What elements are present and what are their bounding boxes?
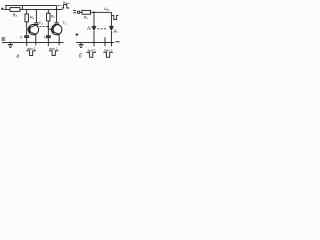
svg-text:вых.1: вых.1	[88, 48, 96, 52]
wire emitter T1	[35, 34, 37, 45]
capacitor C2 (coupling)	[54, 22, 58, 24]
waveform output pulse	[62, 4, 69, 8]
wire collector T2	[56, 6, 58, 23]
wire bottom rail fig b	[76, 42, 114, 44]
svg-text:Д1: Д1	[87, 26, 92, 31]
svg-text:вых.2: вых.2	[104, 48, 112, 52]
waveform input pulse fig b	[112, 15, 118, 19]
waveform pulse input 2	[49, 51, 59, 56]
terminal input fig b	[73, 10, 76, 12]
capacitor C (trigger, left)	[24, 35, 29, 37]
wire	[80, 11, 82, 13]
resistor Rk1 (vertical)	[26, 10, 28, 14]
terminal minus bottom-left	[2, 37, 6, 39]
svg-text:C1: C1	[39, 21, 44, 26]
wire tick x6	[5, 6, 7, 10]
wire emitter T2	[58, 34, 60, 45]
svg-text:Rк: Rк	[30, 15, 35, 20]
wire dashed between diodes	[97, 28, 107, 30]
capacitor C1 (coupling)	[34, 22, 38, 24]
waveform output 2 fig b	[103, 52, 113, 57]
svg-text:Rо: Rо	[84, 16, 89, 21]
svg-text:Uвх: Uвх	[104, 7, 110, 12]
svg-text:Uвых: Uвых	[63, 0, 71, 5]
terminal dot top-left	[1, 8, 3, 10]
wire top rail fig b	[91, 11, 112, 13]
capacitor C (trigger, right)	[46, 35, 51, 37]
resistor Rogr	[82, 10, 91, 14]
transistor T2	[52, 24, 62, 34]
diode Dn	[110, 12, 112, 26]
wire dash right end	[115, 41, 119, 43]
svg-text:C: C	[44, 35, 47, 40]
wire dashed to output	[58, 5, 62, 7]
wire upper rail H1	[5, 5, 56, 7]
waveform output 1 fig b	[86, 52, 96, 57]
wire tick x22.5	[22, 6, 24, 10]
wire collector T1	[35, 10, 37, 23]
resistor R (series, horizontal)	[10, 8, 20, 12]
node junction dot	[93, 11, 95, 13]
wire middle tail	[104, 37, 106, 46]
terminal plus fig b	[76, 34, 79, 36]
ground fig a	[9, 43, 11, 45]
node junction dot	[48, 26, 50, 28]
svg-text:б: б	[79, 53, 82, 59]
wire lower rail H2	[4, 9, 63, 11]
diode D1	[93, 12, 95, 26]
wire bottom rail fig a	[2, 42, 64, 44]
svg-text:C: C	[20, 35, 23, 40]
wire dashed coupling	[39, 26, 47, 28]
svg-text:Rб: Rб	[13, 13, 18, 19]
waveform pulse input 1	[26, 51, 36, 56]
svg-text:а: а	[16, 53, 19, 59]
transistor T1	[28, 24, 38, 34]
svg-text:T2: T2	[63, 21, 67, 26]
svg-text:Rк: Rк	[51, 15, 56, 20]
resistor Rk2 (vertical)	[47, 10, 49, 14]
svg-text:Дn: Дn	[114, 29, 119, 34]
ground fig b	[80, 43, 82, 45]
